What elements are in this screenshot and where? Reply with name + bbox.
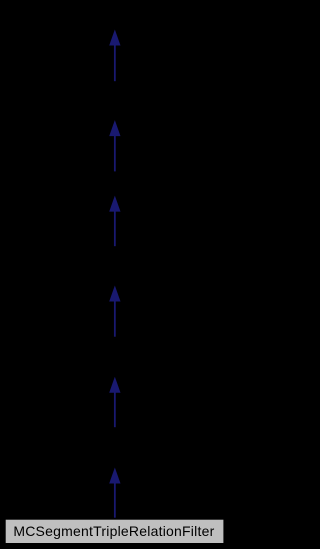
svg-text:MCSegmentTripleRelationFilter: MCSegmentTripleRelationFilter (13, 523, 214, 539)
wire arrow 3 (inheritance edge) (109, 196, 120, 247)
wire arrow 1 (inheritance edge) (109, 30, 120, 82)
node MCSegmentTripleRelationFilter (5, 519, 225, 544)
wire arrow 4 (inheritance edge) (109, 286, 120, 337)
wire arrow 5 (inheritance edge) (109, 377, 120, 428)
wire arrow 6 (inheritance edge) (109, 468, 120, 519)
wire arrow 2 (inheritance edge) (109, 120, 120, 171)
